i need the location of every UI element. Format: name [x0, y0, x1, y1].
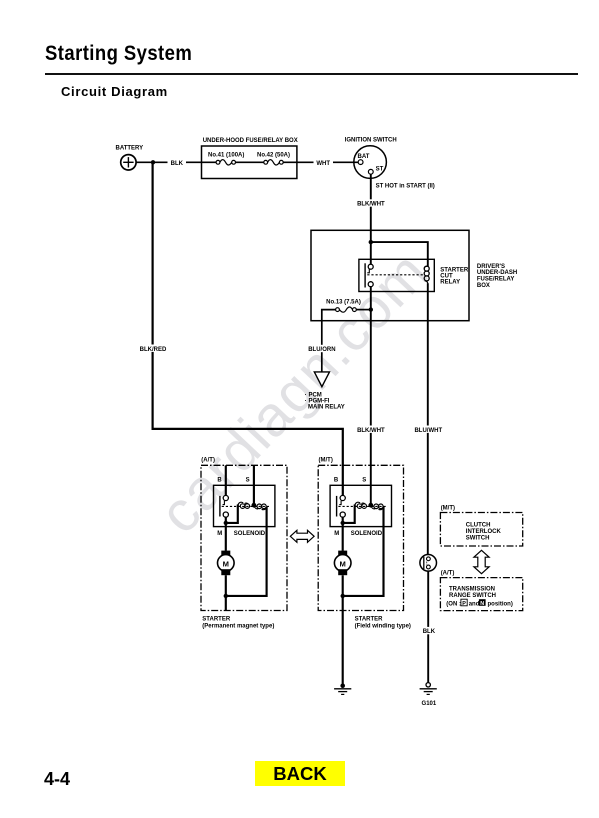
- wire relay contact down to fuse node: [370, 287, 372, 310]
- solenoid A/T contact bottom: [223, 512, 228, 517]
- svg-text:position): position): [488, 601, 513, 607]
- wire junction to relay coil: [371, 242, 428, 266]
- wire label BLU/ORN: [308, 345, 336, 353]
- solenoid M/T dashed link: [338, 505, 387, 507]
- starter (A/T) enclosure: [201, 465, 287, 610]
- solenoid M/T contact bottom: [340, 512, 345, 517]
- driver's under-dash fuse/relay box: [311, 230, 469, 320]
- starter cut relay label: [440, 267, 469, 285]
- svg-text:RANGE SWITCH: RANGE SWITCH: [449, 593, 496, 599]
- wire label BLK/RED: [140, 345, 167, 353]
- junction node relay feed: [369, 240, 373, 244]
- svg-text:WHT: WHT: [316, 161, 330, 167]
- junction M node A/T: [224, 521, 228, 525]
- ignition switch body: [354, 146, 387, 179]
- svg-text:M: M: [223, 559, 229, 568]
- svg-text:SOLENOID: SOLENOID: [351, 531, 383, 537]
- wire fuse 13 to BLU/ORN drop: [322, 310, 336, 372]
- driver's under-dash fuse/relay box label: [477, 264, 517, 289]
- fuse No.42 (50A): [264, 160, 283, 165]
- solenoid A/T dashed link: [222, 505, 271, 507]
- svg-text:SWITCH: SWITCH: [466, 535, 490, 541]
- svg-text:BATTERY: BATTERY: [116, 145, 144, 151]
- wire coil return A/T: [226, 507, 267, 596]
- section heading: [61, 84, 168, 99]
- wire contact to M node M/T: [342, 517, 344, 523]
- wire label BLU/WHT: [414, 426, 442, 434]
- clutch interlock switch label: [466, 522, 502, 541]
- motor brush top M/T: [338, 551, 347, 557]
- junction S node M/T: [368, 503, 373, 508]
- solenoid U-M/T box: [330, 485, 391, 526]
- svg-text:No.13 (7.5A): No.13 (7.5A): [326, 299, 361, 305]
- PCM / PGM-FI main relay note: [305, 393, 345, 411]
- wire coil feed elbow A/T: [226, 505, 238, 523]
- park/clutch position switch: [420, 555, 437, 572]
- starter (M/T) enclosure: [318, 465, 403, 610]
- wire fuse box to ignition switch: [283, 161, 358, 163]
- wire S terminal A/T: [253, 465, 255, 505]
- wire switch to ground G101: [427, 571, 429, 683]
- wire motor M/T to ground: [342, 575, 344, 684]
- under-hood fuse/relay box: [202, 146, 297, 179]
- either-or arrow between starters: [290, 530, 314, 542]
- wire label BLK/WHT lower: [357, 426, 385, 434]
- wire label BLK: [421, 627, 437, 635]
- svg-text:STARTER: STARTER: [202, 616, 231, 622]
- motor brush bottom M/T: [338, 569, 347, 575]
- solenoid M/T hold-in coil: [371, 504, 383, 510]
- svg-text:DRIVER'S: DRIVER'S: [477, 264, 505, 270]
- ignition switch ST terminal: [368, 169, 373, 174]
- svg-text:B: B: [217, 477, 222, 483]
- junction return node A/T: [224, 594, 228, 598]
- fuse No.13 (7.5A): [336, 307, 371, 312]
- solenoid A/T contact top: [223, 495, 228, 500]
- svg-text:CUT: CUT: [440, 274, 453, 280]
- svg-text:(M/T): (M/T): [319, 457, 333, 463]
- wire coil return M/T: [343, 507, 384, 596]
- motor brush bottom A/T: [221, 569, 230, 575]
- wire contact to M node A/T: [225, 517, 227, 523]
- solenoid M/T armature bar: [336, 496, 338, 517]
- wire between fuses: [236, 161, 266, 163]
- solenoid M/T contact top: [340, 495, 345, 500]
- svg-text:BLK/RED: BLK/RED: [140, 347, 167, 353]
- junction node fuse 13: [369, 307, 373, 311]
- svg-text:BLK: BLK: [171, 161, 184, 167]
- page title: [45, 41, 192, 66]
- wire motor to return node A/T: [225, 575, 227, 610]
- svg-text:S: S: [362, 477, 366, 483]
- svg-text:TRANSMISSION: TRANSMISSION: [449, 587, 495, 593]
- svg-text:No.42 (50A): No.42 (50A): [257, 152, 290, 158]
- svg-text:M: M: [340, 559, 346, 568]
- ground starter M/T: [334, 683, 351, 694]
- starter M/T caption: [355, 616, 411, 629]
- svg-text:FUSE/RELAY: FUSE/RELAY: [477, 277, 514, 283]
- solenoid A/T hold-in coil: [254, 504, 266, 510]
- svg-text:ST HOT in START (II): ST HOT in START (II): [376, 184, 435, 190]
- solenoid A/T pull-in coil: [238, 502, 250, 508]
- transmission range switch label: [449, 587, 496, 600]
- relay armature bar: [364, 263, 366, 287]
- svg-text:SOLENOID: SOLENOID: [234, 531, 266, 537]
- page number: [44, 769, 70, 790]
- wire B terminal A/T: [225, 465, 227, 495]
- relay contact terminal top: [368, 264, 373, 269]
- clutch interlock switch box: [440, 513, 522, 547]
- svg-text:MAIN RELAY: MAIN RELAY: [308, 405, 345, 411]
- solenoid U-A/T box: [214, 485, 275, 526]
- watermark: [187, 487, 189, 489]
- svg-text:BAT: BAT: [358, 154, 370, 160]
- svg-text:BOX: BOX: [477, 283, 490, 289]
- relay actuation dashed link: [367, 274, 424, 276]
- starter cut relay box: [359, 259, 434, 291]
- wire label WHT: [314, 159, 334, 167]
- svg-text:(Field winding type): (Field winding type): [355, 623, 411, 629]
- svg-text:(ON :: (ON :: [446, 601, 461, 607]
- relay movable blade: [367, 269, 369, 273]
- wire coil feed elbow M/T: [343, 505, 355, 523]
- svg-text:G101: G101: [422, 701, 437, 707]
- svg-text:(A/T): (A/T): [441, 571, 455, 577]
- svg-text:STARTER: STARTER: [355, 616, 384, 622]
- svg-text:INTERLOCK: INTERLOCK: [466, 529, 502, 535]
- wire BLK/RED battery to starter B: [153, 162, 343, 495]
- svg-text:(A/T): (A/T): [201, 457, 215, 463]
- svg-text:M: M: [217, 531, 222, 537]
- ignition switch BAT terminal: [358, 160, 363, 165]
- svg-text:BLK/WHT: BLK/WHT: [357, 428, 385, 434]
- svg-text:BLK/WHT: BLK/WHT: [357, 202, 385, 208]
- svg-text:(M/T): (M/T): [441, 505, 455, 511]
- transmission range switch box: [440, 578, 522, 611]
- title rule: [45, 73, 578, 75]
- svg-text:(Permanent magnet type): (Permanent magnet type): [202, 623, 274, 629]
- connector arrow to PCM: [314, 372, 329, 387]
- svg-text:IGNITION SWITCH: IGNITION SWITCH: [345, 137, 397, 143]
- svg-text:BLU/WHT: BLU/WHT: [414, 428, 442, 434]
- motor M1 A/T: [218, 555, 235, 572]
- svg-text:BLK: BLK: [423, 629, 436, 635]
- svg-text:ST: ST: [376, 167, 384, 173]
- BACK button: [255, 761, 345, 786]
- either-or arrow between switches: [474, 550, 489, 573]
- solenoid M/T pull-in coil: [355, 502, 367, 508]
- wire M node to motor M/T: [342, 523, 344, 551]
- wire relay coil down (BLU/WHT): [427, 283, 429, 554]
- junction M node M/T: [341, 521, 345, 525]
- solenoid A/T armature bar: [219, 496, 221, 517]
- range switch ON note with P and N symbols: [446, 599, 513, 607]
- svg-text:CLUTCH: CLUTCH: [466, 522, 491, 528]
- wire label BLK: [168, 159, 187, 167]
- svg-text:No.41 (100A): No.41 (100A): [208, 152, 244, 158]
- solenoid M/T movable blade: [339, 501, 341, 505]
- battery BAT+ symbol: [121, 155, 136, 170]
- solenoid A/T movable blade: [223, 501, 225, 505]
- relay contact terminal bottom: [368, 282, 373, 287]
- svg-text:and: and: [469, 601, 480, 607]
- wire BLK/WHT relay to starter S: [370, 310, 372, 505]
- svg-text:UNDER-DASH: UNDER-DASH: [477, 270, 517, 276]
- svg-text:P: P: [462, 601, 466, 607]
- svg-text:S: S: [246, 477, 250, 483]
- ground G101: [420, 683, 437, 695]
- junction battery/BLK-RED node: [151, 160, 155, 164]
- wire ST terminal down (BLK/WHT): [370, 174, 372, 264]
- svg-text:STARTER: STARTER: [440, 267, 469, 273]
- starter A/T caption: [202, 616, 274, 629]
- relay coil: [424, 266, 429, 283]
- svg-text:RELAY: RELAY: [440, 280, 460, 286]
- junction return node M/T: [341, 594, 345, 598]
- wire M node to motor A/T: [225, 523, 227, 551]
- svg-text:BLU/ORN: BLU/ORN: [308, 347, 335, 353]
- motor brush top A/T: [221, 551, 230, 557]
- svg-text:UNDER-HOOD FUSE/RELAY BOX: UNDER-HOOD FUSE/RELAY BOX: [203, 138, 298, 144]
- svg-text:M: M: [334, 531, 339, 537]
- junction S node A/T: [252, 503, 257, 508]
- wire battery to under-hood fuse box: [136, 161, 218, 163]
- svg-text:N: N: [480, 601, 484, 607]
- fuse No.41 (100A): [216, 160, 235, 165]
- motor M2 M/T: [334, 555, 351, 572]
- svg-text:B: B: [334, 477, 339, 483]
- wire label BLK/WHT upper: [357, 199, 385, 207]
